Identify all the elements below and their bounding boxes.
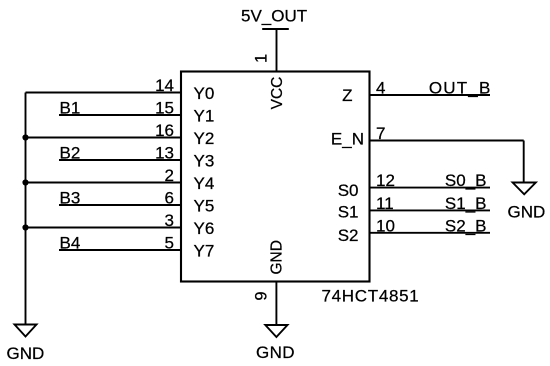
wire E_N horizontal	[370, 140, 524, 142]
svg-text:S1: S1	[338, 203, 359, 222]
wire B4 to Y7	[59, 249, 181, 251]
svg-text:OUT_B: OUT_B	[429, 79, 492, 98]
svg-text:4: 4	[376, 79, 385, 98]
svg-text:Y5: Y5	[194, 197, 215, 216]
svg-text:1: 1	[253, 54, 271, 63]
wire E_N vertical	[523, 141, 525, 183]
ground symbol center	[265, 325, 287, 337]
svg-text:S2_B: S2_B	[445, 217, 487, 236]
svg-text:Y0: Y0	[194, 84, 215, 103]
svg-text:74HCT4851: 74HCT4851	[322, 286, 420, 305]
wire B2 to Y3	[59, 159, 181, 161]
ground symbol left	[15, 325, 37, 337]
wire Y2	[26, 137, 182, 139]
wire VCC	[276, 29, 278, 72]
svg-text:VCC: VCC	[269, 77, 286, 110]
power symbol 5V_OUT bar	[262, 28, 289, 30]
wire left bus vertical	[25, 93, 27, 325]
svg-text:Y2: Y2	[194, 129, 215, 148]
wire S1 to S1_B	[370, 209, 491, 211]
junction dot at Y6	[22, 224, 28, 230]
svg-text:Y7: Y7	[194, 242, 215, 261]
svg-text:10: 10	[376, 217, 395, 236]
svg-text:9: 9	[252, 291, 270, 300]
svg-text:S1_B: S1_B	[445, 194, 487, 213]
wire Z to OUT_B	[370, 94, 491, 96]
svg-text:E_N: E_N	[331, 130, 364, 149]
svg-text:Y3: Y3	[194, 152, 215, 171]
svg-text:GND: GND	[269, 240, 286, 274]
svg-text:GND: GND	[256, 343, 295, 362]
wire S0 to S0_B	[370, 187, 491, 189]
wire B1 to Y1	[59, 114, 181, 116]
svg-text:Y4: Y4	[194, 174, 215, 193]
ground symbol right	[513, 183, 536, 195]
svg-text:5V_OUT: 5V_OUT	[241, 7, 307, 26]
svg-text:Y1: Y1	[194, 107, 215, 126]
wire S2 to S2_B	[370, 232, 491, 234]
wire Y6	[26, 227, 182, 229]
svg-text:S2: S2	[338, 226, 359, 245]
svg-text:Z: Z	[342, 86, 352, 105]
svg-text:12: 12	[376, 171, 395, 190]
svg-text:7: 7	[376, 124, 385, 143]
op-amp U1 74HCT4851 body	[181, 72, 370, 282]
wire B3 to Y5	[59, 204, 181, 206]
wire Y4	[26, 182, 182, 184]
svg-text:S0: S0	[338, 181, 359, 200]
wire Y0	[26, 92, 182, 94]
junction dot at Y2	[22, 134, 28, 140]
svg-text:GND: GND	[508, 203, 546, 222]
svg-text:GND: GND	[7, 344, 45, 363]
wire GND pin 9	[275, 282, 277, 326]
svg-text:11: 11	[376, 194, 394, 213]
junction dot at Y4	[22, 179, 28, 185]
svg-text:S0_B: S0_B	[445, 171, 487, 190]
svg-text:Y6: Y6	[194, 219, 215, 238]
